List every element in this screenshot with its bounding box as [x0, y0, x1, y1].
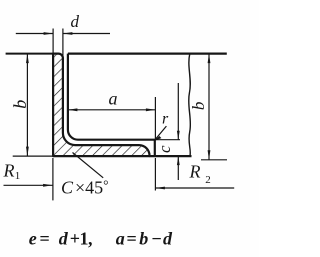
a right extension line — [154, 97, 156, 140]
svg-text:b: b — [10, 100, 30, 109]
svg-text:2: 2 — [205, 174, 211, 186]
part 1: hatched L cross-section — [53, 54, 149, 157]
svg-text:a: a — [109, 88, 118, 108]
dimension a — [68, 109, 155, 111]
svg-text:c: c — [155, 145, 174, 153]
dimension b left — [26, 54, 28, 157]
part 2 top edge — [68, 52, 227, 54]
C x 45 label and leader — [73, 153, 104, 178]
d extension lines — [52, 29, 54, 54]
wavy break line — [189, 54, 191, 157]
dimension b right — [208, 54, 210, 160]
svg-text:R: R — [3, 161, 15, 181]
svg-text:C×45°: C×45° — [61, 178, 109, 198]
svg-text:a: a — [116, 229, 125, 249]
dimension c — [155, 139, 180, 141]
svg-text:−: − — [152, 229, 162, 249]
svg-text:1: 1 — [15, 170, 20, 182]
svg-text:r: r — [162, 111, 169, 128]
svg-text:b: b — [189, 102, 208, 111]
part 2 left and bottom profile with corner radius and step — [68, 54, 155, 157]
svg-text:=: = — [127, 229, 137, 249]
svg-text:d: d — [163, 229, 173, 249]
part 2 bottom lip edge — [150, 155, 192, 157]
b-left bottom extension segment — [13, 155, 53, 157]
svg-text:e: e — [29, 229, 37, 249]
svg-text:b: b — [139, 229, 148, 249]
b-left top extension segment — [6, 53, 54, 55]
svg-text:d: d — [59, 229, 69, 249]
dimension d — [16, 33, 53, 35]
svg-text:d: d — [71, 12, 80, 31]
svg-text:R: R — [189, 162, 201, 182]
svg-text:,: , — [88, 229, 93, 249]
formula: e = d + 1, a = b - d — [29, 229, 173, 249]
svg-text:=: = — [40, 229, 50, 249]
